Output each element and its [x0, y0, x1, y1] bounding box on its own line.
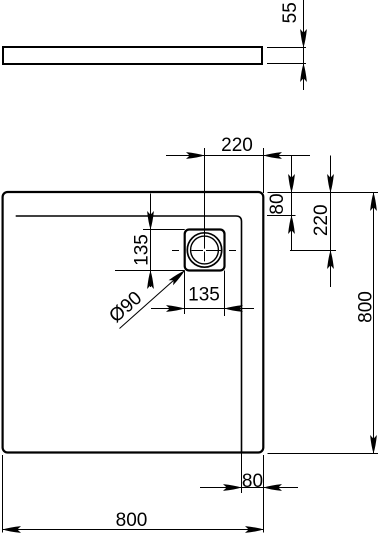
drain flange square	[185, 230, 225, 271]
arrow 220 right top	[327, 174, 334, 193]
drain inner circle	[191, 236, 219, 264]
arrow 55 top	[300, 29, 307, 48]
extension: top edge extended right	[268, 192, 379, 194]
dimension line 135 vertical	[150, 194, 152, 288]
arrow 135 horizontal right	[225, 305, 244, 312]
arrow 80 bottom left	[223, 484, 242, 491]
arrow 135 horizontal left	[166, 305, 185, 312]
svg-text:55: 55	[280, 2, 301, 23]
svg-text:800: 800	[356, 291, 377, 323]
extension: inner edge extended right	[267, 215, 296, 217]
arrow 220 top left	[186, 152, 205, 159]
extension line right edge up (220 top dim)	[263, 148, 265, 193]
inner edge line	[16, 216, 242, 453]
extension: drain square top edge extended left	[143, 229, 185, 231]
arrow 800 bottom left	[3, 526, 22, 533]
svg-text:80: 80	[267, 193, 288, 214]
svg-text:135: 135	[188, 285, 220, 306]
tray outline (plan view 800x800)	[3, 192, 264, 453]
drain outer circle	[187, 233, 221, 267]
dimension line 220 right	[330, 156, 332, 288]
arrow 80 bottom right	[264, 484, 283, 491]
arrow 80 right bottom	[288, 216, 295, 235]
svg-text:135: 135	[132, 234, 153, 266]
extension: right edge extended down	[263, 455, 265, 533]
dimension line 135 horizontal	[151, 308, 254, 310]
extension: drain square left edge extended down	[184, 271, 186, 315]
dimension line 800 right	[373, 193, 375, 454]
svg-text:80: 80	[242, 471, 263, 492]
drain centerline horizontal segments	[172, 250, 179, 252]
dimension line 80 bottom	[200, 487, 298, 489]
drain centerline vertical	[204, 148, 206, 249]
arrow 800 right bottom	[370, 435, 377, 454]
extension: drain square bottom edge extended left	[115, 270, 185, 272]
extension: inner right edge extended down (80 bottom)	[241, 453, 243, 494]
svg-text:220: 220	[221, 135, 253, 156]
arrow 80 right top	[288, 174, 295, 193]
extension line top (55 dim)	[267, 47, 306, 49]
svg-text:220: 220	[311, 204, 332, 236]
side profile view of tray	[3, 47, 262, 64]
dimension line 55	[303, 0, 305, 90]
arrow 220 right bottom	[327, 251, 334, 270]
extension: left edge extended down (800 bottom)	[2, 455, 4, 533]
arrow 220 top right	[264, 152, 283, 159]
arrow 135 vertical top	[147, 211, 154, 230]
drain centerline extension right	[290, 250, 336, 252]
extension: drain square right edge extended down	[224, 271, 226, 317]
svg-text:800: 800	[116, 510, 148, 531]
arrow 135 vertical bottom	[147, 271, 154, 290]
leader line for drain diameter	[120, 271, 185, 329]
extension line bottom (55 dim)	[267, 63, 306, 65]
dimension line 80 right	[291, 156, 293, 251]
arrow 55 bottom	[300, 64, 307, 83]
dimension line 800 bottom	[3, 529, 264, 531]
extension: bottom edge extended right	[268, 453, 379, 455]
dimension line 220 top	[166, 155, 310, 157]
leader arrowhead	[169, 268, 187, 285]
arrow 800 right top	[370, 193, 377, 212]
arrow 800 bottom right	[245, 526, 264, 533]
